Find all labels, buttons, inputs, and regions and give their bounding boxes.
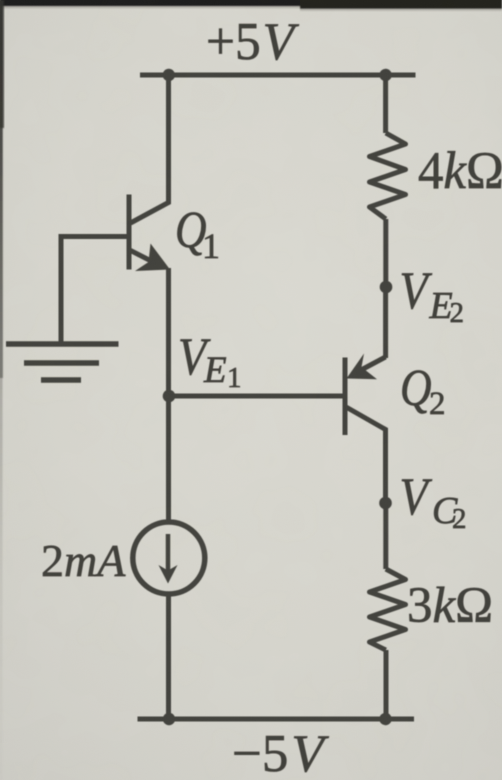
- wire Q1 emitter vertical: [166, 268, 171, 522]
- wire V_E1 to Q2 base: [169, 394, 345, 399]
- wire Q1 collector vertical: [131, 75, 169, 223]
- resistor 4kOhm: [370, 133, 406, 219]
- wire 4k resistor to V_E2 node: [383, 219, 388, 287]
- node V_E1 junction dot: [163, 390, 176, 403]
- wire Q1 base lead to ground: [61, 237, 129, 345]
- wire V_C2 to 3k resistor: [383, 503, 388, 569]
- node V_C2 junction dot: [379, 497, 392, 510]
- current source 2mA: [133, 522, 205, 594]
- node junction dot top right: [379, 69, 391, 81]
- ground: [6, 344, 119, 380]
- node junction dot top left: [163, 69, 175, 81]
- wire V_E2 to Q2 emitter: [383, 287, 388, 358]
- label Q2: [400, 360, 446, 422]
- wire 3k resistor to bottom rail: [384, 650, 389, 719]
- transistor Q2: [345, 354, 386, 436]
- label Q1: [175, 202, 220, 266]
- wire current source to bottom rail: [166, 594, 171, 719]
- label V_E1: [178, 327, 242, 394]
- wire top rail to 4k resistor: [383, 75, 388, 133]
- left photo border: [0, 0, 4, 780]
- wire Q2 collector to V_C2: [346, 407, 386, 503]
- resistor 3kOhm: [370, 569, 406, 650]
- top photo border: [0, 0, 502, 11]
- wire bottom rail -5V: [138, 717, 415, 722]
- label V_E2: [400, 261, 465, 329]
- node junction dot bottom left: [163, 713, 175, 725]
- label V_C2: [400, 467, 467, 535]
- node V_E2 junction dot: [380, 281, 393, 294]
- node junction dot bottom right: [379, 713, 391, 725]
- transistor Q1: [129, 195, 170, 272]
- wire top rail +5V: [140, 73, 416, 78]
